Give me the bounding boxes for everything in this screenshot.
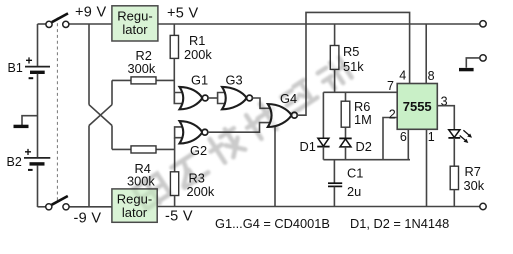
svg-text:G1: G1 [191,72,208,87]
wire G2 to G4 [208,123,272,133]
svg-text:2u: 2u [347,184,361,199]
switch S2 [46,196,69,210]
svg-text:1: 1 [428,130,435,144]
svg-text:-5 V: -5 V [165,208,193,224]
gate G3 [222,87,252,109]
led D3 [448,130,472,143]
wire D2 anode [345,147,347,160]
wire C1 bottom [333,187,335,207]
resistor R3 [170,172,178,196]
svg-text:D1, D2 = 1N4148: D1, D2 = 1N4148 [350,216,449,231]
wire R2 row [112,79,174,81]
wire pin 7 net [323,91,397,93]
wire R1 bottom to G1 input [173,58,175,103]
resistor R2 [131,77,156,84]
svg-text:B1: B1 [8,61,23,75]
capacitor C1 [328,183,342,186]
svg-text:30k: 30k [464,178,485,193]
wire +5V rail [158,23,480,25]
wire pin 8 [425,24,427,84]
wire R7 bottom [453,190,455,207]
node G2 input bracket [175,127,183,138]
wire timing net [323,159,410,161]
wire R4 row [112,148,175,150]
wire ground stub [22,116,38,125]
wire crossover diagonals [89,105,112,126]
wire S2 to -9V rail [69,206,112,208]
svg-text:C1: C1 [347,166,363,181]
wire crossover right vertical [111,80,113,149]
ground [14,125,29,128]
resistor R6 [341,101,350,127]
wire G3 to G4 [252,98,272,108]
svg-text:+: + [25,145,32,159]
battery B1 [25,54,50,79]
wire pin 2 [383,118,397,160]
svg-text:8: 8 [428,69,435,83]
svg-text:D1: D1 [300,139,316,154]
diode D2 [339,138,351,147]
svg-text:7: 7 [387,79,394,93]
wire G1 to G3 [208,97,218,99]
wire pin 3 to LED [437,106,454,130]
svg-text:G3: G3 [226,73,243,88]
svg-text:+5 V: +5 V [167,6,198,22]
svg-text:R5: R5 [343,44,359,59]
gate G2 [180,121,208,143]
wire D1 anode branch [322,92,324,138]
svg-text:D2: D2 [356,139,372,154]
svg-text:B2: B2 [7,155,22,169]
node G3 input bracket [218,93,226,104]
resistor R1 [170,35,178,58]
wire pin 1 [426,129,428,206]
wire R5 bottom [334,69,336,92]
node G1 input bracket [174,93,183,104]
resistor R7 [450,166,458,189]
switch gang dashed link [56,18,58,203]
svg-text:2: 2 [389,107,396,121]
svg-text:+: + [26,54,33,68]
wire LED to R7 [453,138,455,166]
wire S1 to +9V rail [69,23,112,25]
wire -5V bottom rail [157,206,480,208]
svg-text:1M: 1M [354,112,372,127]
battery B2 [24,145,50,170]
svg-text:300k: 300k [128,61,156,76]
wire G4 to bottom rail [274,127,276,207]
wire B1 to switch S1 [38,23,46,25]
wire R6 to D2 [345,127,347,138]
svg-text:G1...G4 = CD4001B: G1...G4 = CD4001B [215,216,330,231]
gate G4 [268,104,298,127]
switch S1 [46,13,69,27]
wire R6 top [345,92,347,101]
svg-text:lator: lator [122,22,148,37]
wire G2 input column [174,138,176,172]
wire D1 cathode [322,147,324,160]
resistor R5 [330,46,339,70]
terminal output positive [480,21,486,27]
svg-text:+9 V: +9 V [75,5,106,21]
terminal output negative [480,203,486,209]
svg-text:R7: R7 [465,164,481,179]
terminal ground [459,55,486,70]
wire pin 6 [407,129,409,159]
wire C1 top [333,160,335,183]
wire battery column [37,24,39,207]
gate G1 [180,87,209,109]
regulator U2 top [112,6,158,41]
resistor R4 [131,146,156,153]
svg-text:-9 V: -9 V [74,210,102,226]
svg-text:6: 6 [400,130,407,144]
svg-text:7555: 7555 [403,99,432,114]
wire R3 bottom [174,196,176,207]
wire R1 top [173,24,175,35]
regulator U3 bottom [112,189,157,222]
svg-text:4: 4 [399,69,406,83]
diode D1 [317,138,329,146]
wire B2 to switch S2 [38,206,46,208]
timer U1 7555 [397,84,437,130]
svg-text:200k: 200k [184,47,212,62]
wire crossover left vertical [88,24,90,207]
wire R5 top [334,24,336,46]
wire G4 output to pin 4 [297,12,409,115]
